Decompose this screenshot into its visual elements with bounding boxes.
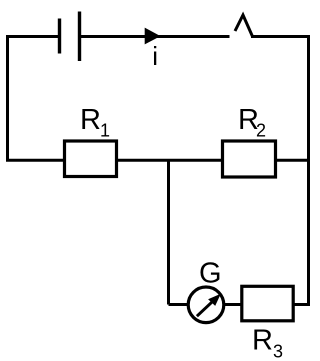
svg-text:R1: R1 (80, 104, 110, 141)
svg-text:i: i (152, 41, 158, 71)
svg-text:G: G (199, 258, 222, 290)
svg-text:R2: R2 (238, 104, 266, 141)
svg-text:R3: R3 (252, 325, 283, 361)
